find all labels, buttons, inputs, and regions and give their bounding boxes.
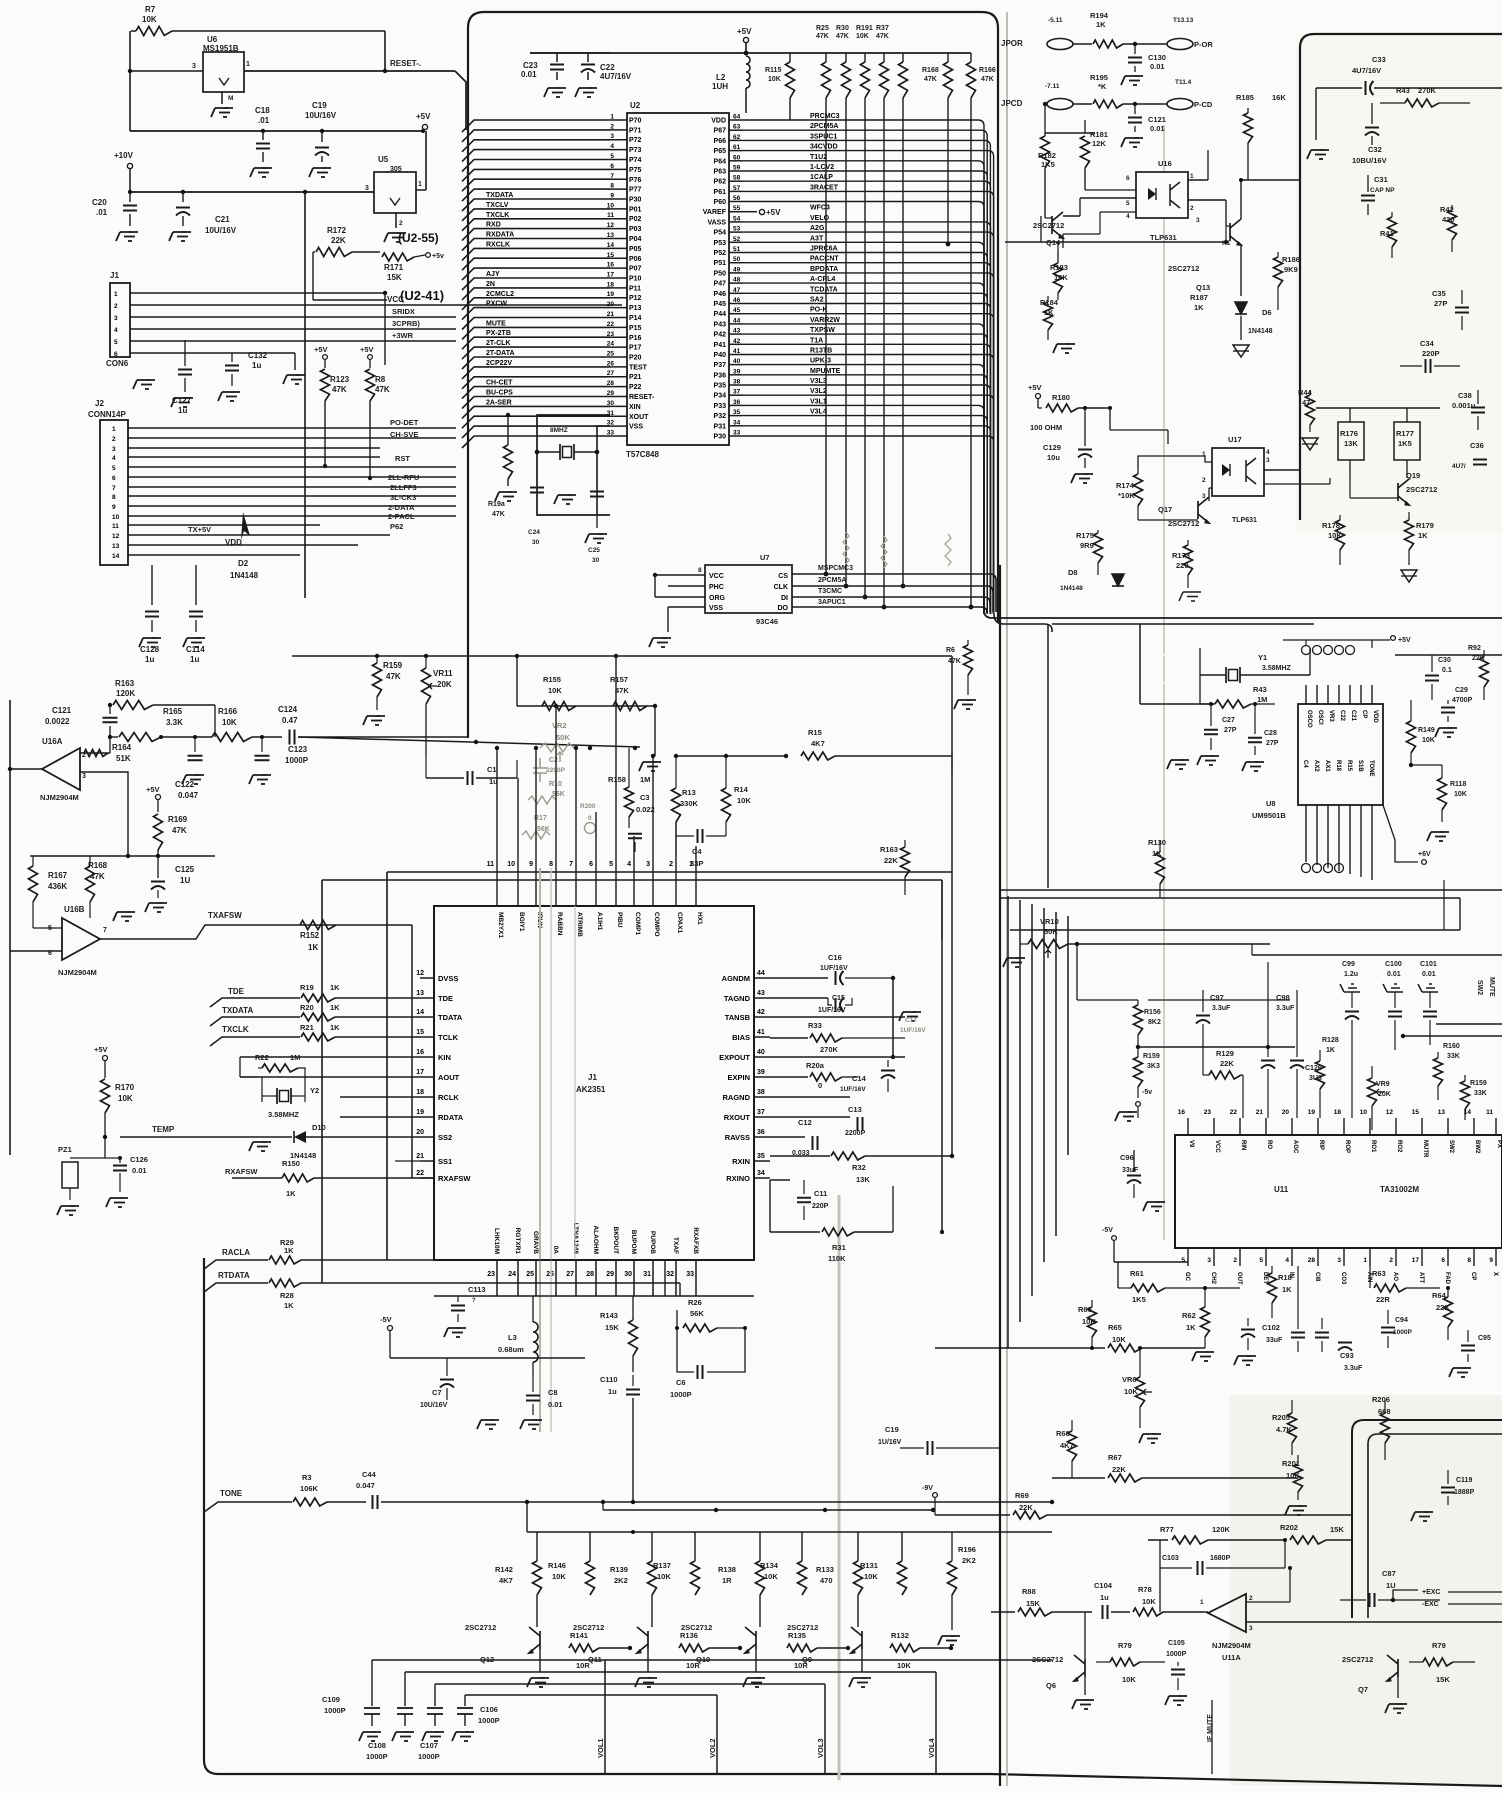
resistor R66 10K [1088, 1307, 1097, 1337]
ground under C23 [557, 87, 561, 89]
svg-text:RESET-.: RESET-. [390, 59, 421, 68]
AOUT row wire [240, 1076, 420, 1078]
svg-text:BUPOM: BUPOM [630, 1230, 637, 1254]
capacitor C7 10U/16V [440, 1379, 454, 1381]
svg-text:C7: C7 [432, 1388, 442, 1397]
svg-text:2: 2 [1233, 1257, 1237, 1264]
svg-text:P13: P13 [629, 305, 642, 312]
svg-text:420: 420 [1442, 215, 1455, 224]
wire right vertical from bus [1459, 898, 1461, 930]
svg-text:305: 305 [390, 166, 402, 173]
svg-text:Q17: Q17 [1158, 505, 1172, 514]
svg-text:R186: R186 [1282, 255, 1300, 264]
svg-text:1N4148: 1N4148 [230, 571, 259, 580]
svg-text:P10: P10 [629, 276, 642, 283]
ground under C20 [129, 231, 133, 233]
svg-text:R164: R164 [112, 743, 132, 752]
svg-text:37: 37 [733, 389, 741, 396]
svg-text:P73: P73 [629, 147, 642, 154]
svg-text:Q19: Q19 [1406, 471, 1420, 480]
svg-text:33: 33 [733, 430, 741, 437]
svg-text:C121: C121 [1148, 115, 1166, 124]
svg-text:2: 2 [610, 123, 614, 130]
svg-text:VAREF: VAREF [703, 209, 727, 216]
svg-text:44: 44 [757, 970, 765, 977]
svg-text:0: 0 [818, 1081, 822, 1090]
svg-text:R20a: R20a [806, 1061, 825, 1070]
svg-text:C32: C32 [1368, 145, 1382, 154]
svg-text:.01: .01 [258, 116, 270, 125]
ground under R159 [376, 715, 380, 717]
svg-text:220P: 220P [1422, 349, 1440, 358]
gray faded verticals center [539, 868, 541, 1432]
svg-text:R175: R175 [1076, 531, 1094, 540]
svg-text:10K: 10K [142, 15, 157, 24]
U2 left pin stubs [610, 120, 627, 436]
svg-text:C19: C19 [312, 101, 327, 110]
svg-text:C21: C21 [215, 215, 230, 224]
svg-text:220: 220 [1176, 561, 1189, 570]
svg-text:T1A: T1A [810, 337, 823, 344]
transistor Q14 2SC2712 [1052, 212, 1063, 238]
svg-text:436K: 436K [48, 882, 67, 891]
svg-text:R43: R43 [1253, 685, 1267, 694]
svg-text:RXCLK: RXCLK [486, 241, 510, 248]
resistor R8 47K with +5V [368, 355, 373, 360]
svg-text:52: 52 [733, 236, 741, 243]
svg-text:R160: R160 [1443, 1043, 1460, 1050]
scan streak gray 1 [1006, 12, 1008, 1786]
svg-text:CS: CS [778, 573, 788, 580]
bus double line y895 [1000, 889, 1502, 891]
svg-text:P16: P16 [629, 335, 642, 342]
svg-text:R13: R13 [682, 788, 696, 797]
svg-text:10K: 10K [1124, 1387, 1138, 1396]
ground under C105 [1178, 1695, 1182, 1697]
svg-text:P63: P63 [714, 169, 727, 176]
section border: MCU block top center [468, 12, 998, 738]
ground under D6 [1233, 345, 1249, 357]
wires Q17 [1208, 488, 1210, 501]
svg-text:C104: C104 [1094, 1581, 1113, 1590]
+5V terminal top left [422, 124, 427, 129]
svg-text:54: 54 [733, 215, 741, 222]
svg-text:EXPIN: EXPIN [727, 1073, 750, 1082]
svg-text:40: 40 [757, 1049, 765, 1056]
svg-text:-5v: -5v [1142, 1089, 1152, 1096]
svg-text:12K: 12K [1092, 139, 1106, 148]
svg-text:6: 6 [114, 351, 118, 358]
+5V feed top [743, 37, 748, 42]
svg-text:P75: P75 [629, 167, 642, 174]
svg-text:36: 36 [733, 399, 741, 406]
svg-text:14: 14 [112, 553, 120, 560]
svg-text:0.022: 0.022 [636, 805, 655, 814]
svg-text:1000P: 1000P [366, 1752, 388, 1761]
capacitor C31 CAP NP [1361, 195, 1375, 197]
svg-text:100 OHM: 100 OHM [1030, 423, 1062, 432]
capacitor C22 4U7/16V [581, 64, 595, 66]
svg-text:1U/16V: 1U/16V [878, 1439, 902, 1446]
ground under R179 [1401, 570, 1417, 582]
svg-text:16: 16 [1178, 1109, 1186, 1116]
svg-text:1K: 1K [1186, 1323, 1196, 1332]
signal wire into opamp R88 C104 R78 [991, 1611, 1015, 1613]
svg-text:10K: 10K [1054, 273, 1068, 282]
ground under right leg [596, 515, 598, 528]
svg-text:C36: C36 [1470, 441, 1484, 450]
svg-text:VSS: VSS [629, 424, 643, 431]
resistor R136 10R base [679, 1644, 709, 1652]
svg-text:17: 17 [416, 1069, 424, 1076]
svg-text:KIN: KIN [438, 1053, 451, 1062]
transistor Q17 2SC2712 [1198, 497, 1209, 523]
inductor L3 0.68um [533, 1322, 538, 1362]
svg-text:R202: R202 [1280, 1523, 1298, 1532]
+5V tap at VAREF pin 55 [759, 209, 764, 214]
capacitor C18 0.1 [261, 129, 265, 133]
svg-text:R163: R163 [115, 679, 135, 688]
svg-text:DVSS: DVSS [438, 974, 458, 983]
svg-text:5: 5 [114, 339, 118, 346]
svg-text:P31: P31 [714, 423, 727, 430]
svg-text:R181: R181 [1090, 130, 1108, 139]
svg-text:C98: C98 [1276, 993, 1290, 1002]
svg-text:T13.13: T13.13 [1173, 17, 1194, 24]
bus wires y872/880 [322, 879, 942, 881]
svg-text:50: 50 [733, 256, 741, 263]
resistor R137 10K [691, 1561, 700, 1595]
svg-text:18: 18 [1334, 1109, 1342, 1116]
svg-text:R159: R159 [383, 661, 403, 670]
svg-text:1K: 1K [1194, 303, 1204, 312]
svg-text:R20: R20 [300, 1003, 314, 1012]
J1 pin wires [130, 292, 385, 294]
cap C105 1000P [1171, 1669, 1185, 1671]
svg-text:RESET-: RESET- [629, 394, 655, 401]
+5V for U8 [1391, 636, 1396, 641]
svg-text:42: 42 [733, 338, 741, 345]
svg-text:470: 470 [820, 1576, 833, 1585]
terminal oval P-CD [1167, 99, 1193, 110]
svg-text:64: 64 [733, 114, 741, 121]
svg-text:TONE: TONE [1368, 760, 1374, 777]
svg-text:+5V: +5V [766, 208, 781, 217]
svg-text:D10: D10 [312, 1123, 326, 1132]
capacitor C121 0.0022 [103, 717, 118, 719]
svg-text:56K: 56K [537, 826, 550, 833]
potentiometer VR11 20K (revised position) [425, 756, 427, 778]
svg-text:V3L3: V3L3 [810, 378, 827, 385]
ground under R201 [1298, 1505, 1302, 1507]
cap C35 27P [1455, 307, 1469, 309]
scan streak gray 2 [838, 1195, 841, 1780]
svg-text:1000P: 1000P [1166, 1651, 1187, 1658]
resistor R183 10K [1054, 263, 1063, 293]
svg-text:6: 6 [610, 163, 614, 170]
vertical C16 right to EXPOUT [892, 978, 894, 1057]
resistor R165 3.3K [119, 733, 161, 742]
svg-text:C29: C29 [1455, 687, 1468, 694]
svg-text:C20: C20 [92, 198, 107, 207]
svg-text:C125: C125 [175, 865, 195, 874]
wire y1262 under U11 [1114, 1261, 1188, 1263]
svg-text:PXCW: PXCW [486, 301, 507, 308]
svg-text:1K: 1K [1418, 531, 1428, 540]
resistor network loops above U8 [1302, 646, 1355, 655]
U11 bottom pin stubs [1188, 1248, 1496, 1266]
resistor R155 10K [542, 702, 576, 711]
wire U16 pin2 to Q13 base [1188, 199, 1226, 201]
svg-text:1K: 1K [1326, 1047, 1335, 1054]
wire down to PZ1 C126 [104, 1137, 106, 1158]
svg-text:0.047: 0.047 [356, 1481, 375, 1490]
ladder wire y706 [517, 705, 655, 707]
svg-text:1UF/16V: 1UF/16V [900, 1027, 926, 1034]
svg-text:0.001u: 0.001u [1452, 401, 1476, 410]
svg-text:4: 4 [1126, 213, 1130, 220]
svg-text:C93: C93 [1340, 1351, 1354, 1360]
svg-text:6: 6 [589, 861, 593, 868]
svg-text:24: 24 [508, 1271, 516, 1278]
svg-text:C33: C33 [1372, 55, 1386, 64]
svg-text:C35: C35 [1432, 289, 1446, 298]
svg-text:33K: 33K [1447, 1053, 1460, 1060]
svg-text:10K: 10K [1454, 791, 1467, 798]
svg-text:47K: 47K [90, 872, 105, 881]
svg-text:VOL2: VOL2 [708, 1738, 717, 1758]
svg-text:RXD: RXD [486, 222, 501, 229]
svg-text:*K: *K [1098, 82, 1107, 91]
svg-text:P53: P53 [714, 240, 727, 247]
svg-text:RXAFSW: RXAFSW [225, 1167, 258, 1176]
R163b 22K resistor mid [901, 847, 910, 877]
svg-text:1R: 1R [722, 1576, 732, 1585]
svg-text:C121: C121 [52, 706, 72, 715]
svg-text:0.01: 0.01 [521, 70, 537, 79]
svg-text:R142: R142 [495, 1565, 513, 1574]
pot VR9 20K [1368, 1078, 1377, 1106]
capacitor C1 1u [467, 771, 469, 785]
svg-text:13: 13 [1438, 1109, 1446, 1116]
U16A output wire to left rail [10, 768, 42, 770]
svg-text:R15: R15 [1346, 760, 1352, 772]
svg-text:R166: R166 [218, 707, 238, 716]
svg-text:+5V: +5V [1398, 637, 1411, 644]
svg-text:10: 10 [507, 861, 515, 868]
svg-text:38: 38 [733, 379, 741, 386]
opto coupler U16 TLP631 [1136, 172, 1188, 218]
svg-text:15: 15 [1412, 1109, 1420, 1116]
svg-text:CH-SVE: CH-SVE [390, 430, 418, 439]
svg-text:D6: D6 [1262, 308, 1272, 317]
vertical wire x387 to RACLA [386, 872, 388, 1260]
resistor R15 4K7 on wire [801, 752, 835, 760]
ground under C130 [1134, 75, 1138, 77]
svg-text:P52: P52 [714, 250, 727, 257]
svg-text:P33: P33 [714, 403, 727, 410]
svg-text:11: 11 [112, 523, 119, 530]
svg-text:SW2: SW2 [1476, 980, 1483, 995]
svg-text:R18: R18 [1335, 760, 1341, 772]
svg-text:59: 59 [733, 165, 741, 172]
grounds under caps row [372, 1731, 376, 1733]
svg-text:SS2: SS2 [438, 1133, 452, 1142]
resistor R179 1K [1405, 520, 1414, 550]
svg-text:C38: C38 [1458, 391, 1472, 400]
svg-text:J1: J1 [588, 1073, 597, 1082]
-5V terminal [1136, 1102, 1141, 1107]
svg-text:4: 4 [1266, 449, 1270, 456]
U5 ground pin2 [395, 213, 397, 228]
svg-text:PUPOB: PUPOB [649, 1231, 656, 1254]
svg-text:10K: 10K [737, 796, 751, 805]
svg-text:C6: C6 [676, 1378, 686, 1387]
svg-text:9: 9 [1489, 1257, 1493, 1264]
svg-text:37: 37 [757, 1109, 765, 1116]
svg-text:P03: P03 [629, 226, 642, 233]
svg-text:ATT: ATT [1418, 1272, 1424, 1284]
svg-text:2SC2712: 2SC2712 [681, 1623, 712, 1632]
svg-text:R19a: R19a [488, 501, 505, 508]
RACLA wire with R29 1K [204, 1260, 268, 1269]
svg-text:R196: R196 [958, 1545, 976, 1554]
IC U8 UM9501B body [1298, 704, 1383, 805]
svg-text:RXIN: RXIN [732, 1157, 750, 1166]
wire TDE row with R19 1K [210, 998, 300, 1007]
svg-text:PX: PX [1496, 1140, 1502, 1148]
svg-text:4U7/16V: 4U7/16V [1352, 66, 1381, 75]
svg-text:R128: R128 [1322, 1037, 1339, 1044]
svg-text:1000P: 1000P [1393, 1329, 1412, 1336]
Q13 emitter to D6 [1240, 245, 1242, 296]
svg-text:Y1: Y1 [1258, 653, 1267, 662]
svg-text:Q13: Q13 [1196, 283, 1210, 292]
svg-text:2: 2 [399, 220, 403, 227]
svg-text:7: 7 [569, 861, 573, 868]
junction dots on TONE [525, 1500, 529, 1504]
svg-text:PRCMC3: PRCMC3 [810, 113, 840, 120]
svg-text:2A-SER: 2A-SER [486, 399, 512, 406]
wire vertical into C32 [1315, 88, 1317, 140]
svg-text:R200: R200 [580, 803, 596, 810]
svg-text:15K: 15K [1330, 1525, 1344, 1534]
diode D6 1N4148 [1235, 302, 1247, 314]
svg-text:PACCNT: PACCNT [810, 256, 839, 263]
resistor R194 1K [1093, 40, 1123, 48]
svg-text:MUTE: MUTE [1488, 977, 1495, 997]
svg-text:3K3: 3K3 [1147, 1063, 1160, 1070]
svg-text:0.01: 0.01 [1150, 124, 1165, 133]
svg-text:3: 3 [1266, 457, 1270, 464]
resistor R180 100 OHM [1037, 399, 1039, 408]
vertical wire x322 to RTDATA [321, 880, 323, 1283]
svg-text:RDATA: RDATA [438, 1113, 464, 1122]
svg-text:22: 22 [416, 1170, 424, 1177]
Q11 emitter ground [647, 1649, 649, 1672]
svg-text:R115: R115 [765, 67, 781, 74]
resistor R159b 33K [1461, 1081, 1470, 1109]
svg-text:58: 58 [733, 175, 741, 182]
svg-text:R155: R155 [543, 675, 561, 684]
svg-text:270K: 270K [1418, 86, 1437, 95]
svg-text:2SC2712: 2SC2712 [465, 1623, 496, 1632]
-5V terminal left of U11 [1112, 1236, 1117, 1241]
resistor R41 [1388, 217, 1397, 247]
svg-text:VOL3: VOL3 [816, 1738, 825, 1758]
capacitor C8 0.01 [526, 1395, 540, 1397]
svg-text:Q6: Q6 [1046, 1681, 1056, 1690]
svg-text:RIP: RIP [1318, 1140, 1324, 1150]
svg-text:R44: R44 [1298, 388, 1313, 397]
svg-text:P14: P14 [629, 315, 642, 322]
svg-text:33uF: 33uF [1266, 1337, 1283, 1344]
svg-text:P02: P02 [629, 216, 642, 223]
svg-text:3: 3 [114, 315, 118, 322]
ground under R62 [1205, 1351, 1209, 1353]
svg-text:R32: R32 [852, 1163, 866, 1172]
svg-text:R63: R63 [1372, 1269, 1386, 1278]
resistor R185 10K [1244, 113, 1253, 143]
svg-text:10U/16V: 10U/16V [305, 111, 337, 120]
svg-text:2SC2712: 2SC2712 [787, 1623, 818, 1632]
svg-text:RGTXR1: RGTXR1 [514, 1228, 521, 1255]
transistor Q12 2SC2712 [529, 1627, 540, 1653]
svg-text:T3CMC: T3CMC [818, 588, 842, 595]
svg-text:TXAF: TXAF [672, 1237, 679, 1254]
svg-text:R168: R168 [88, 861, 108, 870]
ground under U6 pin2 [221, 92, 223, 104]
svg-text:ALAOHM: ALAOHM [592, 1225, 599, 1254]
svg-text:93C46: 93C46 [756, 617, 778, 626]
resistor R31 110K loop [769, 1180, 771, 1232]
wire U16 pin1 up [1188, 179, 1208, 181]
svg-text:3: 3 [1249, 1625, 1253, 1632]
C103 1680P feedback cap [1160, 1567, 1192, 1569]
svg-text:VOL4: VOL4 [927, 1738, 936, 1758]
svg-text:1: 1 [1200, 1599, 1204, 1606]
svg-text:COMP1: COMP1 [634, 912, 641, 936]
svg-text:1UF/16V: 1UF/16V [820, 965, 848, 972]
+10V terminal [127, 163, 132, 168]
svg-text:VARR2W: VARR2W [810, 317, 840, 324]
svg-text:(U2-55): (U2-55) [398, 231, 439, 245]
svg-text:6: 6 [1441, 1257, 1445, 1264]
svg-text:T57C848: T57C848 [626, 450, 659, 459]
ground under C27 [1180, 759, 1184, 761]
ground under C8 [533, 1419, 537, 1421]
svg-text:P47: P47 [714, 281, 727, 288]
svg-text:V3L4: V3L4 [810, 409, 827, 416]
svg-text:3: 3 [1207, 1257, 1211, 1264]
ground under R44 [1302, 438, 1318, 450]
svg-text:C114: C114 [186, 645, 205, 654]
+5v terminal small [426, 253, 431, 258]
svg-text:20K: 20K [1378, 1091, 1391, 1098]
wire y1515 with R69 22K [934, 1498, 936, 1515]
EXPOUT row [770, 1056, 905, 1058]
faded resistors on drop lines [843, 532, 951, 568]
RAGND row [770, 1096, 850, 1098]
ground mid crystal [567, 494, 571, 496]
cap C95 near R64 [1461, 1345, 1475, 1347]
ground under C7 [490, 1419, 494, 1421]
cap C96 33uF [1127, 1175, 1141, 1177]
svg-text:47K: 47K [172, 826, 187, 835]
ground under VR6 [1152, 1433, 1156, 1435]
svg-text:R30: R30 [836, 25, 849, 32]
J2 pin wires [128, 427, 456, 429]
